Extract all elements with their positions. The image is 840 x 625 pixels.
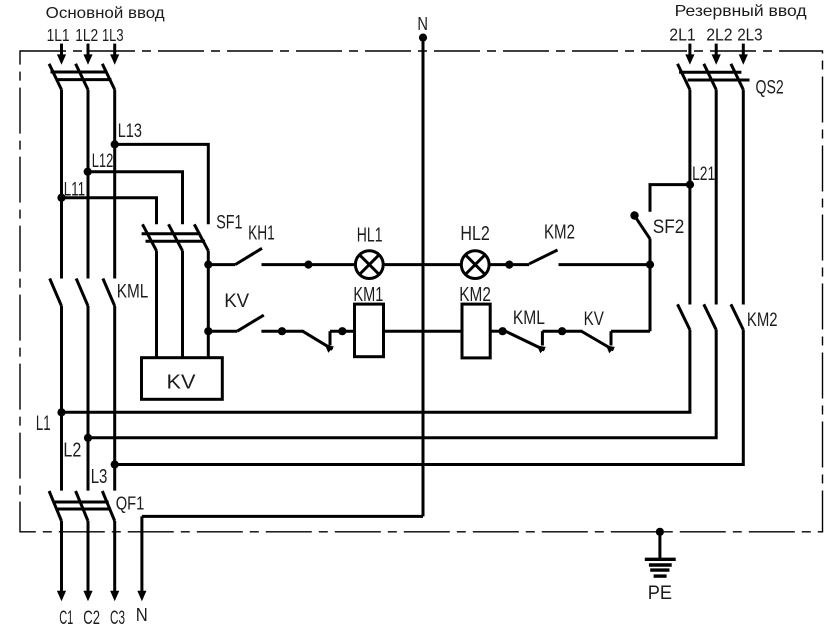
input arrow 2L2 — [712, 44, 721, 65]
wire SF1 pole 2 to KV box — [181, 251, 184, 358]
svg-text:QF1: QF1 — [116, 492, 145, 513]
svg-text:2L2: 2L2 — [706, 25, 732, 45]
wire SF2 riser — [649, 239, 652, 332]
svg-text:C1: C1 — [59, 608, 73, 625]
wire SF2 top — [650, 185, 690, 212]
svg-text:HL1: HL1 — [357, 225, 383, 247]
node N top — [419, 34, 427, 42]
wire phase A QS1 to KML — [60, 90, 63, 279]
wire row1 HL2 to KM2 contact — [489, 263, 529, 266]
svg-text:KML: KML — [513, 308, 545, 329]
svg-text:L3: L3 — [91, 466, 108, 488]
breaker QF1 pole 3 blade — [102, 491, 114, 521]
wire phase C QS1 to KML — [113, 90, 116, 279]
svg-text:L21: L21 — [692, 164, 715, 185]
breaker SF1 linkage bar 1 — [142, 232, 201, 235]
node row1 b — [505, 261, 513, 269]
NC contact row2 left — [302, 331, 334, 353]
node L13 — [111, 140, 119, 148]
svg-text:KV: KV — [584, 309, 604, 330]
wire L13 tap — [115, 144, 209, 224]
svg-text:L2: L2 — [63, 439, 81, 461]
wire KM2 pole 3 to bus L3 — [115, 330, 744, 465]
lamp HL1 — [355, 251, 383, 279]
wire KM2 coil right — [490, 330, 506, 333]
output arrow C1 — [57, 591, 66, 602]
wire N vertical — [422, 38, 425, 517]
breaker SF1 pole 2 blade — [169, 224, 183, 251]
node L11 — [57, 194, 65, 202]
svg-text:KM2: KM2 — [459, 284, 491, 306]
wire N horizontal — [142, 515, 423, 518]
contactor KML pole 2 blade — [76, 279, 88, 307]
input arrow 2L3 — [739, 44, 748, 65]
contactor KM2 pole 2 blade — [704, 304, 716, 330]
node L21 — [686, 181, 694, 189]
wire phase C KML to QF1 — [113, 306, 116, 491]
svg-text:N: N — [417, 13, 428, 34]
contact KM2 row1 — [529, 250, 557, 264]
wire row2 KML to KV — [542, 330, 582, 333]
coil KM1 — [355, 304, 384, 357]
wire KM2 pole 1 to bus L1 — [62, 330, 690, 413]
lamp HL2 — [461, 251, 489, 279]
svg-text:L13: L13 — [118, 121, 142, 142]
breaker SF1 linkage bar 2 — [146, 240, 206, 243]
svg-text:KV: KV — [167, 372, 197, 394]
NC contact KML row2 — [505, 331, 546, 353]
node row1 a — [304, 261, 312, 269]
ground symbol PE — [645, 559, 676, 576]
wire output C2 — [87, 521, 90, 592]
switch QS1 pole 1 blade — [49, 64, 61, 90]
wire output C1 — [60, 521, 63, 592]
wire QS2 pole 1 down — [688, 90, 691, 305]
svg-text:KM1: KM1 — [353, 284, 383, 306]
wire output C3 — [113, 521, 116, 592]
svg-text:SF1: SF1 — [216, 213, 242, 234]
svg-text:N: N — [136, 605, 148, 625]
node row2 d — [558, 327, 566, 335]
node L2 — [84, 434, 92, 442]
wire SF1 pole 3 down — [207, 251, 210, 358]
svg-text:QS2: QS2 — [756, 77, 784, 98]
switch QS2 pole 1 blade — [678, 64, 690, 90]
svg-text:2L1: 2L1 — [669, 25, 695, 45]
wire row1 HL1 to HL2 — [383, 263, 461, 266]
svg-text:Основной ввод: Основной ввод — [46, 5, 166, 22]
svg-text:1L3: 1L3 — [102, 25, 124, 45]
NC contact KV row2 — [581, 331, 615, 353]
wire SF1 pole 1 to KV box — [155, 251, 158, 358]
node row1 at SF1 pole3 — [204, 261, 212, 269]
svg-text:L12: L12 — [92, 151, 114, 172]
wire phase B QS1 to KML — [87, 90, 90, 279]
breaker QF1 linkage bar 2 — [57, 508, 111, 511]
node L12 — [84, 168, 92, 176]
svg-text:2L3: 2L3 — [737, 25, 762, 45]
node L3 — [111, 460, 119, 468]
wire L11 tap — [62, 198, 157, 225]
node row2 a — [278, 327, 286, 335]
contact KV row2 — [208, 315, 263, 331]
svg-text:PE: PE — [648, 583, 672, 604]
switch QS1 linkage bar 2 — [57, 78, 112, 81]
relay box KV — [142, 358, 223, 400]
wire PE drop — [658, 532, 661, 558]
switch QS1 pole 2 blade — [76, 64, 88, 90]
svg-text:KML: KML — [117, 282, 149, 303]
node row1 SF2 — [646, 261, 654, 269]
svg-text:KH1: KH1 — [248, 222, 275, 244]
node PE — [656, 528, 664, 536]
svg-text:1L2: 1L2 — [75, 25, 98, 45]
switch QS2 linkage bar 2 — [688, 79, 750, 82]
wire phase A KML to QF1 — [60, 306, 63, 491]
contact KH1 — [208, 248, 262, 264]
svg-text:KM2: KM2 — [544, 221, 575, 243]
switch QS2 linkage bar 1 — [679, 71, 741, 74]
wire KM2 pole 2 to bus L2 — [88, 330, 716, 438]
node row2 at SF1 pole3 — [204, 327, 212, 335]
output arrow C2 — [83, 591, 92, 602]
svg-text:KM2: KM2 — [747, 310, 778, 331]
svg-text:L1: L1 — [36, 412, 51, 435]
wire L12 tap — [88, 172, 183, 225]
switch QS2 pole 2 blade — [704, 64, 716, 90]
node row2 b — [338, 327, 346, 335]
wire row1 KH1 to HL1 — [262, 263, 356, 266]
wire phase B KML to QF1 — [87, 306, 90, 491]
wire row2 KM1 to KM2 — [384, 330, 463, 333]
contactor KML pole 1 blade — [50, 279, 62, 307]
contactor KM2 pole 1 blade — [678, 304, 690, 330]
breaker SF1 pole 1 blade — [143, 224, 157, 251]
wire QS2 pole 2 down — [715, 90, 718, 305]
wire N down to output — [140, 516, 143, 592]
enclosure border — [20, 51, 823, 532]
node L1 — [57, 408, 65, 416]
wire row2 to SF2 riser — [611, 330, 650, 333]
wire row1 to SF2 node — [559, 263, 651, 266]
input arrow 2L1 — [685, 44, 694, 65]
svg-text:C3: C3 — [110, 608, 125, 625]
contactor KML pole 3 blade — [103, 279, 115, 307]
switch QS2 pole 3 blade — [731, 64, 743, 90]
svg-text:C2: C2 — [83, 608, 100, 625]
wire QS2 pole 3 down — [742, 90, 745, 305]
breaker QF1 pole 1 blade — [49, 491, 61, 521]
breaker SF2 blade — [630, 211, 650, 239]
input arrow 1L2 — [83, 44, 92, 65]
svg-text:Резервный ввод: Резервный ввод — [675, 3, 808, 20]
breaker QF1 pole 2 blade — [76, 491, 88, 521]
breaker SF1 pole 3 blade — [194, 224, 208, 251]
switch QS1 linkage bar 1 — [51, 71, 107, 74]
switch QS1 pole 3 blade — [102, 64, 114, 90]
svg-text:1L1: 1L1 — [47, 25, 70, 45]
wire row2 to KM1 — [330, 330, 355, 333]
output arrow N — [137, 591, 146, 602]
contactor KM2 pole 3 blade — [731, 304, 743, 330]
svg-text:SF2: SF2 — [653, 217, 685, 238]
input arrow 1L1 — [57, 44, 66, 65]
output arrow C3 — [110, 591, 119, 602]
svg-text:HL2: HL2 — [460, 223, 489, 245]
breaker QF1 linkage bar 1 — [55, 501, 109, 504]
wire row2 KV to NC contact — [261, 330, 303, 333]
svg-text:KV: KV — [224, 291, 249, 312]
node row2 c — [499, 327, 507, 335]
input arrow 1L3 — [110, 44, 119, 65]
coil KM2 — [462, 304, 490, 358]
